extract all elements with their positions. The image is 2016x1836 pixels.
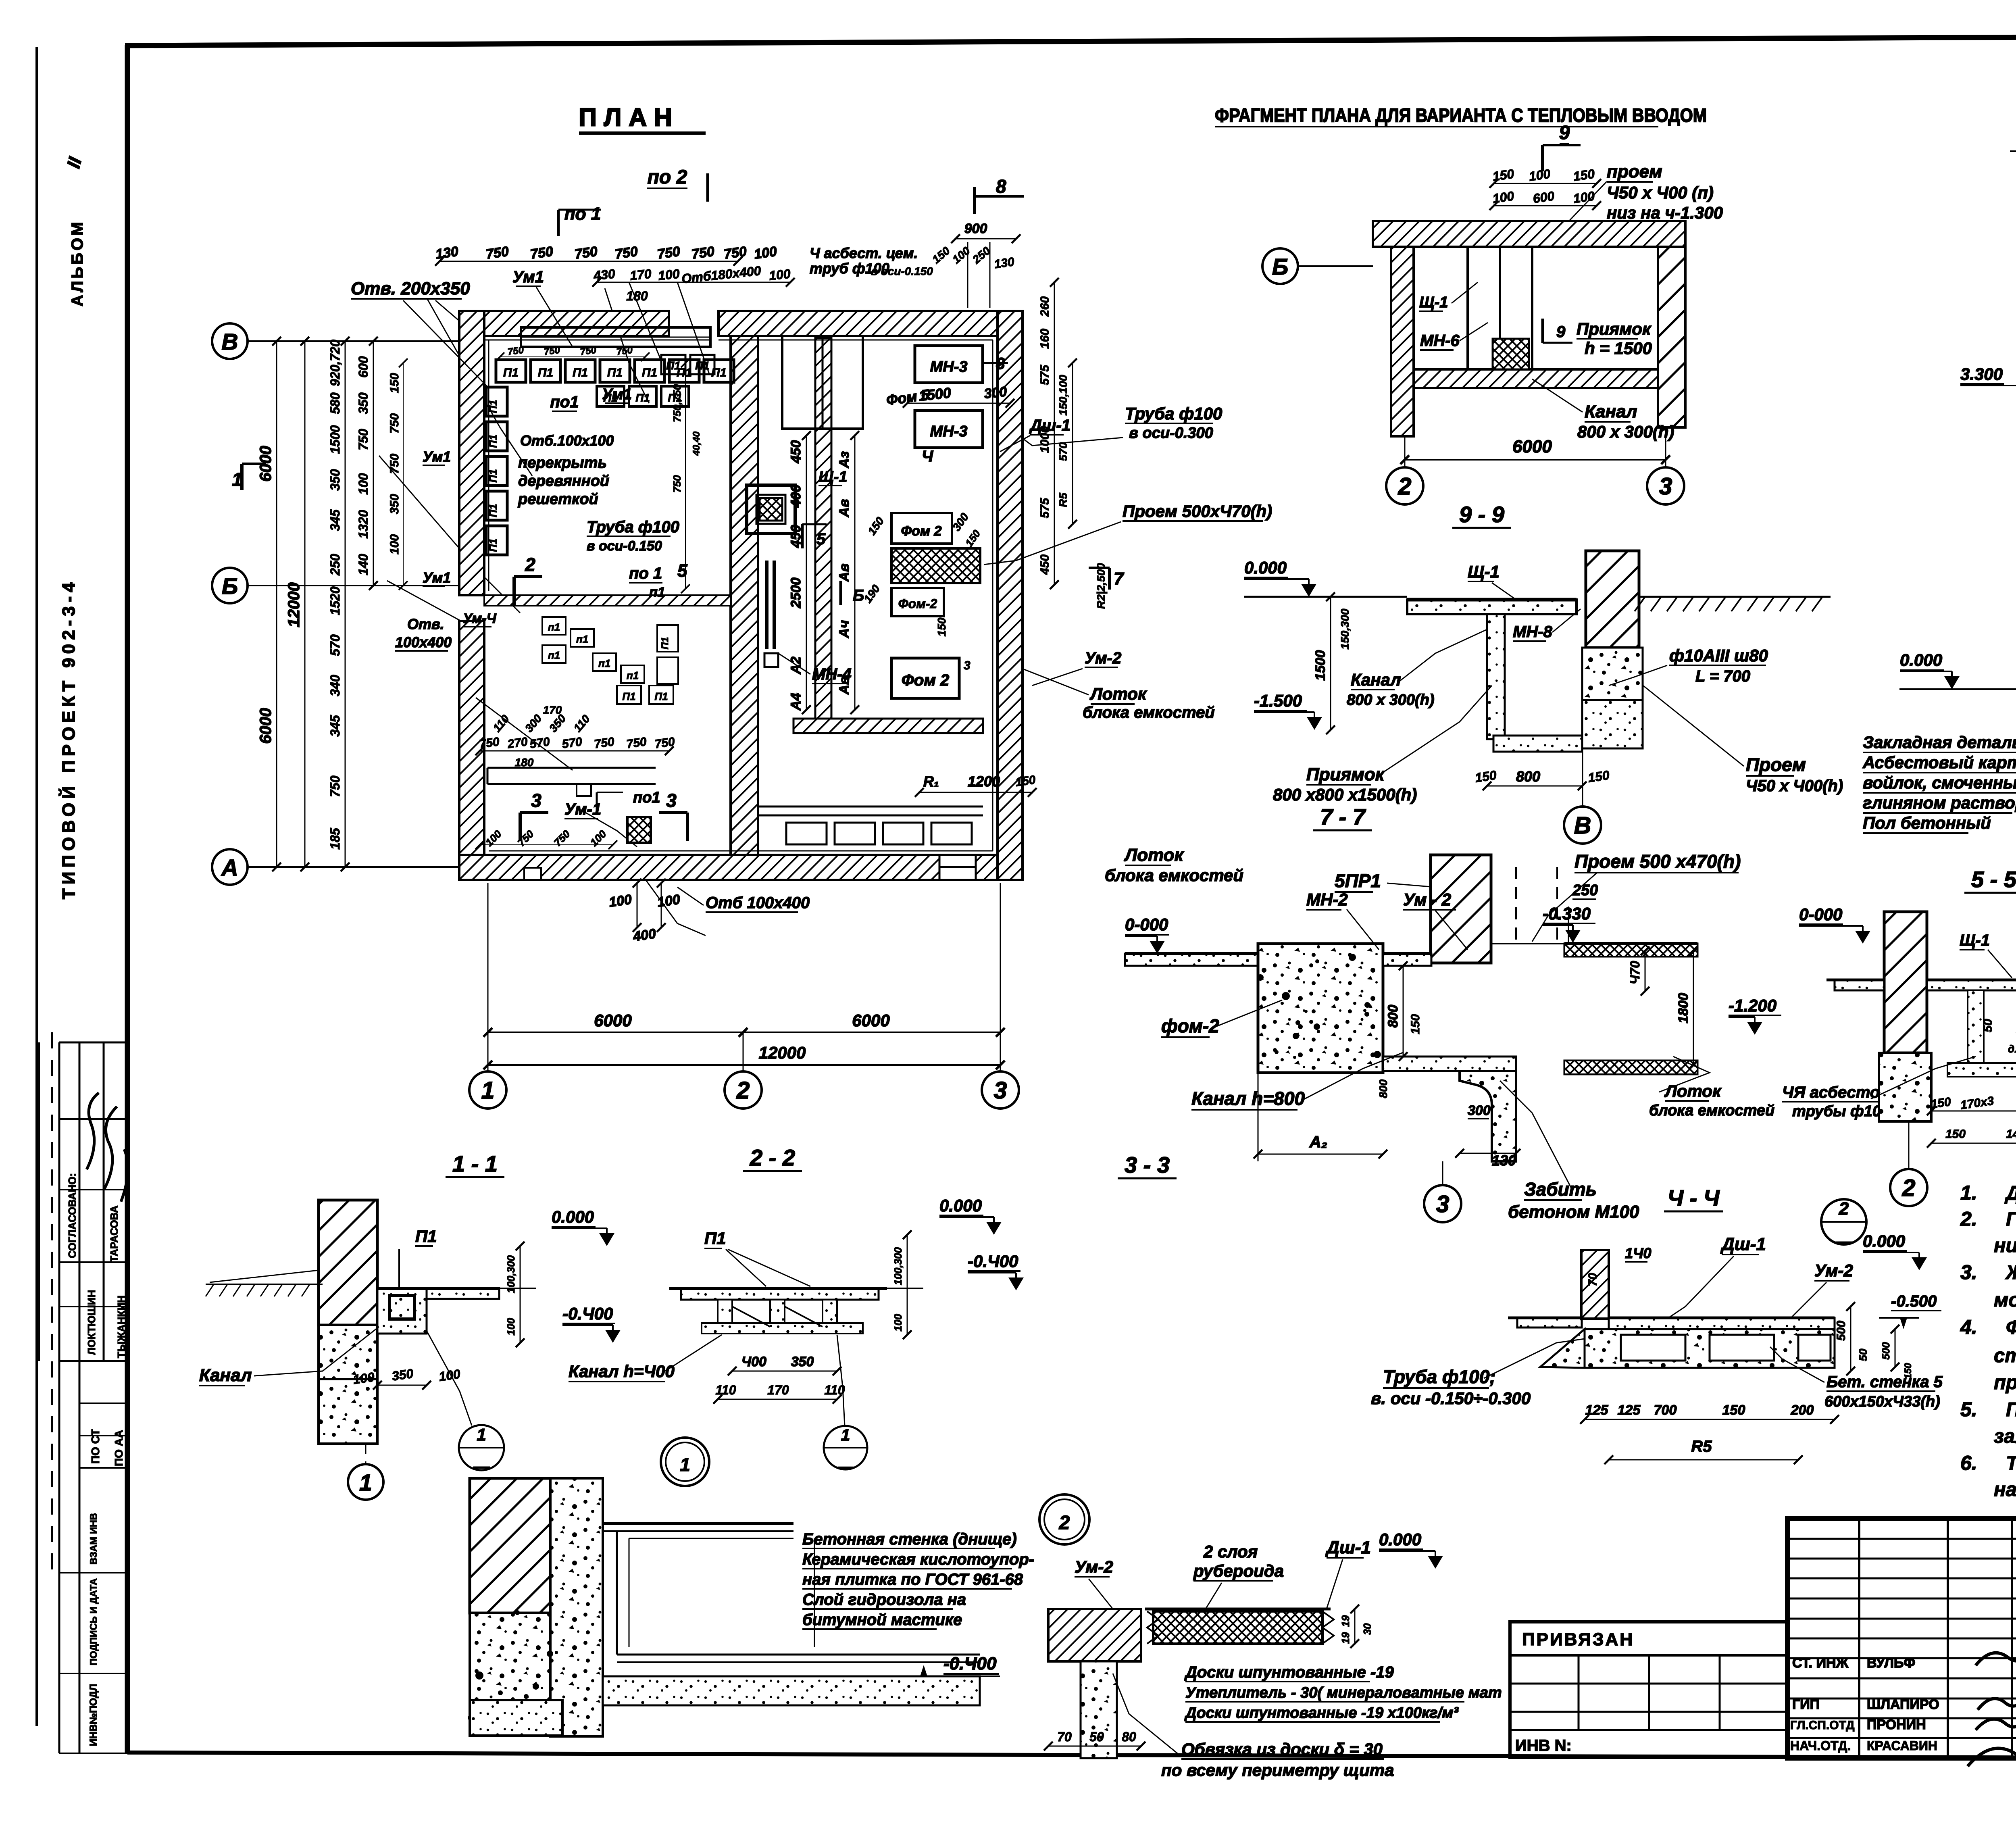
9-9 top slab [1407,600,1577,614]
svg-text:Доски шпунтованные -19: Доски шпунтованные -19 [1184,1663,1394,1681]
svg-text:ние каналов тщательно уплотнит: ние каналов тщательно уплотнить. [1994,1235,2016,1257]
svg-text:Аз: Аз [837,451,852,469]
svg-text:П1: П1 [666,359,681,372]
svg-text:трубы ф100: трубы ф100 [1792,1103,1889,1120]
9-9 dims bottom 150 800 150 [1487,786,1582,787]
left sidebar dash line [51,1032,53,1577]
svg-text:200: 200 [1791,1403,1814,1418]
plan left dim chain inner numbers [345,341,346,867]
9-9 channel bottom slab [1493,736,1582,752]
svg-text:1500: 1500 [1313,650,1328,681]
svg-text:350: 350 [356,392,371,414]
svg-text:750: 750 [388,413,401,433]
svg-text:3: 3 [531,790,541,811]
svg-text:4.: 4. [1960,1316,1977,1338]
plan inner face line left wall [488,340,489,591]
plan bottom dim 12000 [488,1064,1000,1066]
svg-text:5ПР1: 5ПР1 [1335,870,1381,891]
svg-text:900: 900 [964,221,987,236]
svg-text:450: 450 [788,440,804,464]
svg-text:345: 345 [328,715,342,737]
1-1 dims 100 350 100 [377,1385,427,1386]
svg-text:1000: 1000 [1038,426,1052,453]
plan outer wall top-left segment [459,311,669,336]
svg-text:340: 340 [328,675,342,696]
svg-text:КРАСАВИН: КРАСАВИН [1867,1738,1937,1753]
svg-text:в. оси -0.150÷-0.300: в. оси -0.150÷-0.300 [1371,1389,1531,1408]
axis circle B [212,568,248,603]
svg-text:Слой гидроизола на: Слой гидроизола на [802,1591,966,1609]
svg-text:низ на ч-1.300: низ на ч-1.300 [1607,203,1723,222]
svg-text:3: 3 [666,790,677,811]
svg-text:-0.330: -0.330 [1543,904,1591,923]
plan precast slabs P1 row2 partial [597,386,624,406]
svg-text:п1: п1 [627,669,639,681]
svg-text:150: 150 [1474,768,1497,785]
plan section mark 5 center [801,524,804,548]
svg-text:750: 750 [691,244,716,262]
svg-text:Лоток: Лоток [1089,684,1147,703]
svg-text:2: 2 [1839,1199,1849,1219]
svg-text:250: 250 [328,554,342,576]
2-2 channel ribs [718,1300,732,1332]
svg-text:ПРОНИН: ПРОНИН [1867,1717,1926,1732]
svg-text:3.: 3. [1960,1261,1977,1284]
svg-text:НАЧ.ОТД.: НАЧ.ОТД. [1790,1738,1851,1753]
plan room divider right upper [782,336,863,429]
plan vertical dim chain center [806,436,807,710]
plan middle vertical wall [731,336,758,855]
svg-text:R₁: R₁ [923,773,939,790]
plan lower room extra leaders [581,810,637,847]
svg-text:600х150хЧ33(h): 600х150хЧ33(h) [1824,1393,1940,1410]
drawing frame border [125,35,2016,46]
fragment wall top [1373,221,1685,247]
svg-text:8: 8 [996,176,1006,197]
7-7 right chamber vertical dims [1693,952,1694,1065]
svg-text:1500: 1500 [328,425,342,454]
svg-text:150,300: 150,300 [1339,609,1351,650]
corner detail concrete base [470,1613,550,1700]
svg-text:100: 100 [608,892,633,910]
svg-text:12000: 12000 [759,1043,806,1062]
svg-text:по1: по1 [550,393,579,411]
4-4 left slope concrete [1540,1329,1585,1368]
plan precast slabs P1 row [496,360,526,382]
svg-text:750: 750 [356,429,371,450]
svg-text:50: 50 [1981,1019,1995,1032]
svg-text:Труба ф100: Труба ф100 [1125,404,1222,423]
fragment dim 6000 [1405,459,1666,461]
plan section mark 6 center [839,581,842,605]
svg-text:750: 750 [654,735,676,751]
1-1 wall footing stipple [319,1325,377,1410]
svg-text:по1: по1 [633,789,660,806]
plan lower corridor lines [758,806,983,808]
plan fom-2 box mid [891,588,944,616]
svg-text:ФРАГМЕНТ ПЛАНА ДЛЯ ВАРИАНТА С: ФРАГМЕНТ ПЛАНА ДЛЯ ВАРИАНТА С ТЕПЛОВЫМ В… [1215,104,1707,126]
svg-text:R2|2,500: R2|2,500 [1095,563,1107,609]
svg-text:2: 2 [1398,473,1412,500]
svg-text:170: 170 [629,266,652,283]
plan left small dims near wall [403,363,404,586]
svg-text:750: 750 [485,244,510,262]
plan P1 band above bottom wall [786,823,827,844]
svg-text:П1: П1 [573,366,588,379]
svg-text:150: 150 [388,373,401,393]
svg-text:750: 750 [723,244,748,262]
svg-text:Закладная деталь/МН-3/: Закладная деталь/МН-3/ [1863,733,2016,752]
svg-text:станций производительностью 70: станций производительностью 700 м³/сутки [1994,1345,2016,1367]
svg-text:Ав: Ав [837,676,852,695]
svg-text:ная плитка по ГОСТ 961-68: ная плитка по ГОСТ 961-68 [802,1571,1023,1588]
svg-text:0.000: 0.000 [1379,1530,1421,1549]
svg-text:Ум1: Ум1 [512,268,544,286]
svg-text:575: 575 [1038,498,1052,518]
plan bottom-left quadrant extra dims [480,844,613,845]
svg-text:6000: 6000 [257,446,275,482]
1-1 detail circle mark [459,1425,504,1470]
svg-text:100: 100 [657,266,680,283]
corner detail inner lines [629,1538,793,1539]
7-7 hatched column center [1431,855,1491,963]
svg-text:—: — [837,1459,854,1475]
svg-text:2: 2 [1902,1175,1916,1201]
svg-text:750: 750 [671,475,683,493]
plan interior wall room bottom-left [487,767,656,769]
svg-text:А2: А2 [788,656,804,675]
7-7 axis circle 3 [1424,1185,1461,1222]
svg-text:100,300: 100,300 [892,1247,904,1285]
5-5 floor slab left of wall [1835,980,1884,990]
9-9 column footing stipple [1582,648,1643,700]
svg-text:ГЛ.СП.ОТД: ГЛ.СП.ОТД [1790,1719,1855,1732]
svg-text:3 - 3: 3 - 3 [1125,1152,1170,1177]
1-1 channel box [377,1288,427,1334]
svg-text:по 2: по 2 [648,167,687,188]
svg-text:1Ч0: 1Ч0 [1625,1245,1652,1261]
svg-text:100: 100 [505,1318,517,1336]
svg-text:100: 100 [356,473,371,495]
svg-text:6000: 6000 [1512,437,1552,456]
plan left dim chain outer [276,341,277,867]
svg-text:300: 300 [1468,1103,1491,1118]
svg-text:Ач: Ач [837,620,852,639]
svg-text:-0.Ч00: -0.Ч00 [968,1252,1018,1271]
svg-text:350: 350 [328,469,342,491]
svg-text:П1: П1 [415,1227,437,1246]
svg-text:125: 125 [1585,1403,1609,1418]
svg-text:1: 1 [359,1470,372,1496]
svg-text:по 1: по 1 [564,204,601,224]
svg-text:МН-3: МН-3 [930,358,968,375]
5-5 axis circle 2 [1890,1169,1927,1206]
svg-text:750,750: 750,750 [671,384,683,422]
svg-text:1.: 1. [1960,1182,1977,1204]
plan crosshatch square lower room [627,817,651,843]
svg-text:100: 100 [1528,167,1552,184]
svg-text:2: 2 [736,1077,750,1104]
plan fom2 box lower [891,658,959,698]
plan dim row mid-left [480,750,669,752]
svg-text:750: 750 [529,244,554,262]
svg-text:Асбестовый картон или: Асбестовый картон или [1862,753,2016,772]
corner detail concrete column [550,1478,603,1736]
svg-text:3: 3 [964,659,971,672]
svg-text:170: 170 [767,1383,789,1397]
svg-text:ВУЛЬФ: ВУЛЬФ [1867,1655,1915,1671]
svg-text:п1: п1 [576,633,588,645]
svg-text:Пол бетонный: Пол бетонный [1863,813,1991,832]
svg-text:Фундамент Фом 2* выполнять тол: Фундамент Фом 2* выполнять только для [2006,1317,2016,1338]
1-1 floor slab right [427,1288,499,1299]
svg-text:в оси-0.150: в оси-0.150 [871,265,933,277]
fragment axis circle 5 left [1262,248,1298,284]
axis circle V [212,323,248,359]
corner detail bottom pad [470,1700,562,1736]
svg-text:п1: п1 [548,621,560,633]
plan outer wall bottom [459,855,1023,880]
svg-text:фом-2: фом-2 [1161,1015,1219,1036]
svg-text:—: — [473,1458,490,1475]
svg-text:150: 150 [1409,1014,1422,1034]
svg-text:ПО СТ: ПО СТ [89,1429,102,1464]
svg-text:Лоток: Лоток [1664,1082,1722,1100]
7-7 vertical dims middle [1403,966,1404,1057]
svg-text:МН-3: МН-3 [930,423,968,440]
detail2 dims below [1048,1746,1141,1747]
svg-text:570: 570 [328,634,342,656]
svg-text:R5: R5 [1057,493,1069,507]
5-5 channel walls below [1968,990,1984,1063]
fragment axis circle 3 [1647,467,1684,504]
plan top dimension chain row1 [439,261,738,262]
svg-text:300: 300 [983,384,1008,402]
svg-text:Лоток: Лоток [1124,845,1185,865]
svg-text:5: 5 [677,561,687,581]
detail2 concrete strip below [1081,1661,1117,1758]
svg-text:-0.Ч00: -0.Ч00 [562,1304,613,1323]
plan label um-4 bottom-left [463,611,497,627]
fragment wall left [1391,247,1414,436]
fragment top dims [1494,183,1597,184]
svg-text:7: 7 [1114,569,1125,589]
9-9 channel left wall [1487,614,1505,739]
plan P1 boxes right of room [657,625,678,652]
svg-text:П1: П1 [607,366,623,379]
svg-text:19: 19 [1339,1615,1352,1627]
svg-text:150: 150 [1572,167,1596,184]
svg-text:П1: П1 [538,366,553,379]
svg-text:100: 100 [656,892,681,910]
svg-text:перекрыть: перекрыть [518,454,607,471]
svg-text:6000: 6000 [852,1011,889,1030]
plan upper-left room dims row2 [500,356,645,357]
svg-text:100: 100 [438,1367,461,1384]
svg-text:Б: Б [222,573,238,599]
svg-text:Фом-2: Фом-2 [898,596,937,611]
plan crosshatched opening [891,548,980,583]
svg-text:100: 100 [768,266,791,283]
svg-text:100х400: 100х400 [395,634,452,650]
svg-text:30: 30 [1361,1623,1373,1635]
svg-text:1800: 1800 [1676,993,1691,1023]
svg-text:2500: 2500 [788,577,804,609]
svg-text:Приямок: Приямок [1577,319,1652,338]
plan section mark 7 right [1108,568,1111,590]
svg-text:750: 750 [614,244,639,262]
svg-text:9: 9 [1559,122,1570,144]
svg-text:ТИПОВОЙ ПРОЕКТ 902-3-4: ТИПОВОЙ ПРОЕКТ 902-3-4 [58,578,79,899]
svg-text:100: 100 [753,244,778,262]
2-2 double circle detail mark [661,1438,709,1486]
plan leaders from labels [403,300,488,387]
svg-text:МН-2: МН-2 [1306,890,1348,909]
svg-text:570: 570 [529,735,551,751]
plan section mark 2 left [512,577,516,605]
svg-text:1320: 1320 [356,510,371,538]
2-2 rib diagonals [732,1307,770,1327]
4-4 hatched column [1581,1250,1609,1319]
svg-text:750: 750 [616,344,633,357]
svg-text:Проем 500 х470(h): Проем 500 х470(h) [1574,851,1741,872]
sheet edge line left [35,47,38,1726]
svg-text:П1: П1 [622,690,635,702]
9-9 ground hatch right [1639,596,1831,598]
svg-text:ПОДПИСЬ И ДАТА: ПОДПИСЬ И ДАТА [88,1578,99,1665]
svg-text:50: 50 [1089,1730,1104,1744]
7-7 floor slab left [1125,954,1258,966]
svg-text:150: 150 [1930,1095,1952,1111]
4-4 main slab with voids [1609,1318,1835,1329]
svg-text:50: 50 [1857,1348,1869,1361]
svg-text:Ум1: Ум1 [423,569,451,586]
svg-text:ЛОКТЮШИН: ЛОКТЮШИН [85,1290,98,1355]
svg-text:250: 250 [1572,882,1598,899]
svg-text:Щ-1: Щ-1 [1960,932,1990,949]
plan outer wall right [998,311,1023,880]
plan bottom dim 6000 6000 [488,1032,743,1033]
5-5 bottom dims [1931,1111,2016,1112]
svg-text:160: 160 [1038,329,1052,349]
svg-text:6.: 6. [1960,1452,1977,1474]
svg-text:750: 750 [579,344,597,357]
svg-text:500: 500 [1835,1321,1848,1341]
svg-text:2 слоя: 2 слоя [1203,1542,1258,1561]
2-2 dims 400 350 110 170 110 [732,1371,837,1372]
svg-text:5 - 5: 5 - 5 [1971,867,2016,892]
plan shchit square [747,485,795,534]
svg-text:блока емкостей: блока емкостей [1105,866,1243,885]
axis circle 3 bottom [982,1071,1019,1109]
svg-text:Ч50 х Ч00(h): Ч50 х Ч00(h) [1746,777,1843,795]
svg-text:Доски шпунтованные -19 х100кг/: Доски шпунтованные -19 х100кг/м³ [1184,1705,1459,1721]
svg-text:350: 350 [388,494,401,514]
svg-text:40,40: 40,40 [691,431,702,456]
svg-text:Канал: Канал [1585,402,1637,421]
svg-text:После прокладки трубопроводов: После прокладки трубопроводов проем по о… [2006,1399,2016,1421]
privyazan table [1510,1622,1787,1757]
svg-text:2 - 2: 2 - 2 [750,1145,795,1170]
9-9 vert dims 1500 [1330,597,1331,730]
fragment inner partition lines [1468,247,1532,369]
svg-text:Отб.100х100: Отб.100х100 [520,432,614,449]
svg-text:Ум - 2: Ум - 2 [1403,890,1451,909]
4-4 right vert dims [1850,1307,1851,1371]
plan interior wall horizontal left [484,595,731,606]
svg-text:ИНВ№ПОДЛ: ИНВ№ПОДЛ [88,1684,99,1746]
axis circle A [212,849,248,885]
svg-text:Таблица геометрических размеро: Таблица геометрических размеров дана [2006,1453,2016,1474]
svg-text:0.000: 0.000 [1900,650,1942,669]
svg-text:на листе КЖ-Ч.: на листе КЖ-Ч. [1994,1479,2016,1500]
svg-text:Труба ф100;: Труба ф100; [1383,1366,1496,1387]
svg-text:2: 2 [525,554,535,575]
svg-text:П1: П1 [503,366,519,379]
svg-text:12000: 12000 [285,582,303,627]
svg-text:345: 345 [328,509,342,531]
5-5 wall footing stipple [1879,1053,1931,1121]
svg-text:450: 450 [788,525,804,548]
svg-text:1: 1 [477,1425,486,1444]
svg-text:180: 180 [515,756,534,769]
svg-text:ТЫЖАНКИН: ТЫЖАНКИН [115,1295,127,1358]
plan inner partition wall right-upper [815,338,831,719]
svg-text:МН-8: МН-8 [1513,623,1553,641]
plan outer wall left upper [459,311,484,595]
svg-text:Ч50 х Ч00 (п): Ч50 х Ч00 (п) [1607,183,1714,202]
axis circle 2 bottom [725,1071,762,1109]
fragment wall interior horizontal [1414,369,1658,388]
svg-text:Ч: Ч [922,448,933,465]
7-7 right chamber walls [1564,944,1697,957]
svg-text:0.000: 0.000 [1863,1232,1905,1250]
svg-text:100: 100 [388,534,401,554]
svg-text:6000: 6000 [257,708,275,744]
plan vertical duct lines center [765,561,768,649]
svg-text:1 - 1: 1 - 1 [452,1151,498,1176]
plan inner face lines top wall [485,340,710,341]
left sidebar table middle [79,1403,127,1404]
9-9 axis circle V [1564,807,1601,844]
svg-text:580: 580 [328,392,342,414]
axis circle 1 bottom [469,1071,506,1109]
svg-text:Ум-2: Ум-2 [1814,1261,1853,1280]
svg-text:блока емкостей: блока емкостей [1649,1102,1774,1119]
svg-text:П1: П1 [695,359,710,372]
svg-text:130: 130 [993,255,1015,271]
4-4 dims below [1585,1419,1835,1420]
svg-text:в оси-0.150: в оси-0.150 [587,538,662,554]
svg-text:Обвязка из доски δ = 30: Обвязка из доски δ = 30 [1181,1740,1383,1759]
svg-text:7 - 7: 7 - 7 [1320,804,1366,829]
svg-text:130: 130 [435,244,460,262]
svg-text:Щ-1: Щ-1 [1468,562,1500,581]
svg-text:А₂: А₂ [1309,1133,1327,1151]
svg-text:монтировать на свежеуложенном: монтировать на свежеуложенном растворе. [1994,1289,2016,1311]
svg-text:2.: 2. [1960,1208,1977,1230]
svg-text:-1.500: -1.500 [1254,691,1302,710]
svg-text:П1: П1 [704,1229,726,1248]
svg-text:Проем: Проем [1746,754,1806,775]
plan extra dim verticals in left room [685,363,686,589]
svg-text:5.: 5. [1960,1398,1977,1421]
plan long leaders upper-left room [427,299,532,476]
svg-text:920,720: 920,720 [328,340,342,386]
svg-text:Грунт в основании фундаментов: Грунт в основании фундаментов под оборуд… [2006,1209,2016,1230]
fragment wall right [1658,247,1685,427]
svg-text:Дш-1: Дш-1 [1720,1234,1766,1254]
